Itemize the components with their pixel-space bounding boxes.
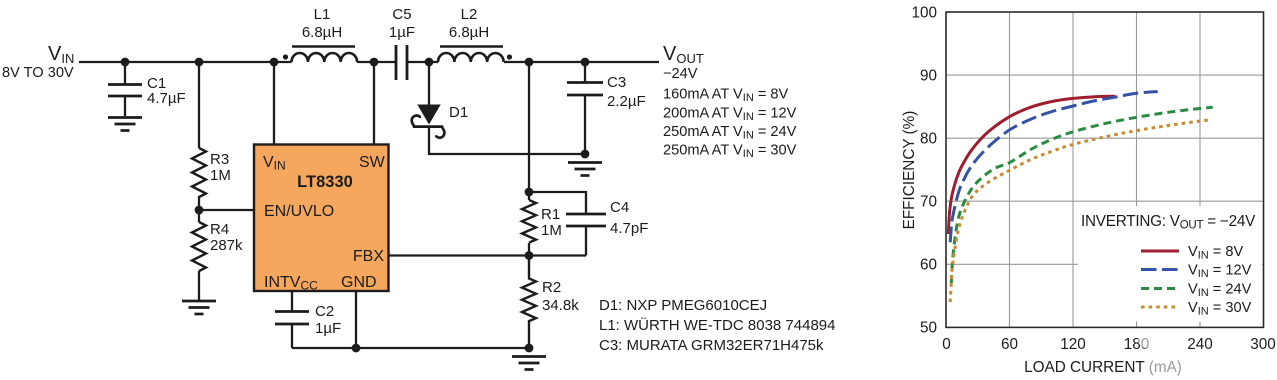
wire: INTVCC stub to C2 [291, 291, 293, 312]
ground (below R4) [182, 301, 216, 314]
node: VIN pin junction [270, 58, 279, 67]
svg-text:VIN = 30V: VIN = 30V [1188, 300, 1252, 318]
wire: GND pin stub [355, 291, 357, 348]
label R3 1M [210, 151, 231, 184]
chart plot border [946, 12, 1264, 327]
svg-text:C3: MURATA GRM32ER71H475k: C3: MURATA GRM32ER71H475k [599, 337, 824, 354]
label VOUT net [663, 43, 797, 160]
chart curve: VIN=12V (blue long dash) [950, 92, 1157, 243]
label x-axis ticks [942, 336, 1276, 353]
chart legend background [1078, 206, 1262, 322]
wire: R3 branch from VIN rail [198, 62, 200, 148]
svg-text:300: 300 [1250, 336, 1276, 353]
svg-text:C5: C5 [392, 6, 411, 23]
label BOM notes [599, 297, 835, 354]
svg-text:VIN = 12V: VIN = 12V [1188, 263, 1252, 281]
ground (below R2) [512, 357, 546, 370]
resistor R4 [192, 222, 206, 271]
svg-text:250mA AT VIN = 30V: 250mA AT VIN = 30V [663, 143, 797, 161]
svg-text:160mA AT VIN = 8V: 160mA AT VIN = 8V [663, 87, 789, 105]
wire: C3 top drop [584, 62, 586, 83]
svg-text:INVERTING: VOUT = −24V: INVERTING: VOUT = −24V [1081, 213, 1256, 232]
wire: VIN pin stub [273, 62, 275, 145]
legend sample: blue dash [1141, 268, 1179, 271]
node: R1/C4 top junction [525, 188, 534, 197]
capacitor C5 (series, vertical plates) [396, 45, 407, 80]
wire: SW pin stub [373, 62, 375, 145]
svg-text:VIN = 24V: VIN = 24V [1188, 282, 1252, 300]
legend sample: green dash [1141, 287, 1179, 290]
label VIN net [2, 43, 74, 81]
svg-text:1M: 1M [541, 222, 562, 239]
resistor R2 [522, 256, 536, 345]
svg-text:R3: R3 [210, 151, 229, 168]
wire: R3 to EN/UVLO node [198, 196, 200, 222]
svg-text:70: 70 [920, 194, 937, 211]
svg-text:EFFICIENCY (%): EFFICIENCY (%) [901, 111, 918, 230]
node: R1 top junction [525, 58, 534, 67]
node: R2 ground junction [525, 344, 534, 353]
capacitor C1 [108, 62, 142, 116]
node: FBX divider junction [525, 251, 534, 260]
inductor L1 [292, 47, 358, 63]
node: GND pin junction [352, 344, 361, 353]
svg-text:100: 100 [911, 5, 937, 22]
label R1 1M [541, 206, 562, 239]
wire: R1 bottom to FBX rail [528, 243, 530, 256]
svg-text:GND: GND [341, 274, 377, 291]
node: VIN / R3 junction [195, 58, 204, 67]
capacitor C3 [567, 83, 603, 155]
svg-text:R2: R2 [542, 279, 561, 296]
svg-text:LOAD CURRENT (mA): LOAD CURRENT (mA) [1024, 359, 1182, 376]
chart: grid lines [946, 12, 1264, 327]
svg-text:90: 90 [920, 68, 937, 85]
svg-text:120: 120 [1060, 336, 1086, 353]
node: D1 anode junction [425, 58, 434, 67]
label C2 value [315, 303, 341, 337]
ground (below C1) [108, 118, 142, 131]
svg-text:6.8µH: 6.8µH [302, 24, 342, 41]
svg-text:240: 240 [1187, 336, 1213, 353]
svg-text:EN/UVLO: EN/UVLO [264, 203, 334, 220]
svg-text:LT8330: LT8330 [297, 173, 353, 191]
wire: VIN input rail (top horizontal) [79, 61, 292, 63]
svg-text:D1: NXP PMEG6010CEJ: D1: NXP PMEG6010CEJ [599, 297, 767, 314]
label L2 6.8uH [449, 6, 489, 41]
wire: FBX feedback rail [389, 254, 587, 256]
svg-text:4.7µF: 4.7µF [147, 90, 186, 107]
resistor R1 [522, 200, 536, 243]
inductor L2 phase dot [507, 54, 512, 59]
svg-text:L1: L1 [314, 6, 331, 23]
label C4 value [610, 199, 648, 237]
label y-axis ticks [911, 5, 937, 337]
capacitor C2 [275, 312, 309, 349]
label R2 34.8k [542, 279, 579, 314]
wire: SW node between L1 and C5 [357, 61, 396, 63]
capacitor C4 [566, 214, 606, 256]
chart curve: VIN=24V (green short dash) [951, 107, 1212, 283]
wire: bottom ground rail [292, 347, 529, 349]
svg-text:60: 60 [1001, 336, 1018, 353]
wire: R1 top branch [528, 62, 530, 200]
inductor L1 phase dot [283, 54, 288, 59]
svg-text:0: 0 [942, 336, 951, 353]
watermark fade blob [1138, 331, 1160, 349]
wire: C5 to L2 segment [407, 61, 438, 63]
svg-text:6.8µH: 6.8µH [449, 24, 489, 41]
svg-text:34.8k: 34.8k [542, 297, 579, 314]
svg-text:287k: 287k [210, 237, 243, 254]
svg-text:250mA AT VIN = 24V: 250mA AT VIN = 24V [663, 124, 797, 142]
node: C3 top junction [581, 58, 590, 67]
svg-text:C3: C3 [607, 74, 626, 91]
node: C3 / D1 ground junction [581, 150, 590, 159]
label C1 value [147, 75, 186, 107]
legend sample: orange dotted [1141, 306, 1179, 309]
label C5 1uF [389, 6, 415, 41]
svg-text:R4: R4 [210, 221, 229, 238]
wire: D1 cathode to ground rail [429, 128, 585, 154]
node: VIN / C1 junction [121, 58, 130, 67]
label L1 6.8uH [302, 6, 342, 41]
svg-text:VOUT: VOUT [663, 43, 704, 66]
wire: L2 to VOUT rail [504, 61, 659, 63]
svg-text:1µF: 1µF [389, 24, 415, 41]
legend sample: red solid [1141, 250, 1179, 253]
op-amp U1: LT8330 regulator body [254, 145, 389, 292]
svg-text:50: 50 [920, 320, 937, 337]
resistor R3 [192, 148, 206, 197]
svg-text:D1: D1 [449, 104, 468, 121]
svg-text:80: 80 [920, 131, 937, 148]
ground (below C3) [568, 163, 602, 176]
svg-text:SW: SW [359, 154, 386, 171]
label C3 value [607, 74, 646, 110]
node: SW pin junction [370, 58, 379, 67]
wire: C4 top link [529, 192, 586, 214]
svg-text:L1: WÜRTH WE-TDC 8038 744894: L1: WÜRTH WE-TDC 8038 744894 [599, 316, 835, 334]
svg-text:VIN = 8V: VIN = 8V [1188, 244, 1243, 262]
node: EN/UVLO divider junction [195, 206, 204, 215]
svg-text:−24V: −24V [663, 66, 698, 82]
svg-text:2.2µF: 2.2µF [607, 93, 646, 110]
svg-text:8V TO 30V: 8V TO 30V [2, 65, 74, 81]
wire: D1 anode drop [428, 62, 430, 106]
diode D1 (Schottky) [412, 105, 445, 138]
chart curve: VIN=8V (red solid) [948, 96, 1115, 234]
svg-text:C2: C2 [315, 303, 334, 320]
label R4 287k [210, 221, 243, 254]
svg-text:60: 60 [920, 257, 937, 274]
svg-text:FBX: FBX [353, 248, 384, 265]
svg-text:L2: L2 [461, 6, 478, 23]
wire: R4 to ground [198, 271, 200, 300]
chart curve: VIN=30V (orange dotted) [950, 120, 1210, 302]
svg-text:R1: R1 [541, 206, 560, 223]
svg-text:1µF: 1µF [315, 320, 341, 337]
svg-text:VIN: VIN [48, 43, 74, 66]
svg-text:1M: 1M [210, 167, 231, 184]
svg-text:C4: C4 [610, 199, 629, 216]
inductor L2 [438, 47, 504, 63]
svg-text:4.7pF: 4.7pF [610, 220, 648, 237]
svg-text:200mA AT VIN = 12V: 200mA AT VIN = 12V [663, 105, 797, 123]
wire: EN/UVLO pin connection [199, 209, 254, 211]
